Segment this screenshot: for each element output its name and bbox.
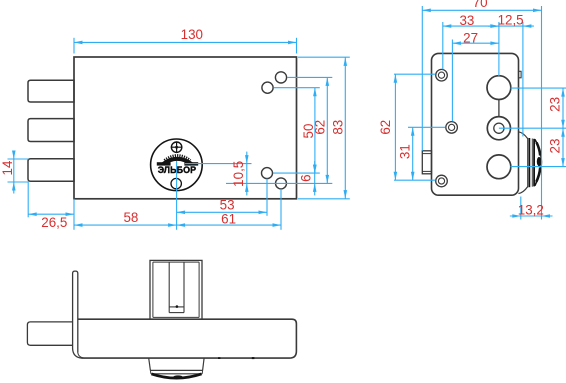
svg-text:14: 14 (0, 160, 15, 175)
svg-text:27: 27 (463, 31, 478, 46)
svg-text:58: 58 (123, 210, 138, 225)
svg-text:23: 23 (548, 97, 563, 112)
svg-text:13,2: 13,2 (518, 203, 544, 218)
svg-text:130: 130 (181, 27, 203, 42)
svg-text:26,5: 26,5 (41, 215, 67, 230)
svg-text:62: 62 (378, 120, 393, 135)
svg-text:31: 31 (398, 144, 413, 159)
svg-text:10,5: 10,5 (231, 161, 246, 187)
svg-text:23: 23 (548, 139, 563, 154)
svg-text:83: 83 (330, 120, 345, 135)
svg-text:50: 50 (301, 124, 316, 139)
svg-text:70: 70 (473, 0, 488, 10)
svg-text:6: 6 (299, 174, 314, 181)
svg-text:12,5: 12,5 (498, 13, 524, 28)
svg-text:61: 61 (221, 211, 236, 226)
svg-text:33: 33 (459, 13, 474, 28)
